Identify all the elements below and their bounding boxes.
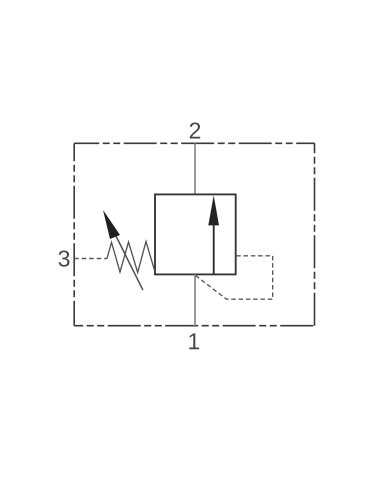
adjustment arrow shaft	[115, 233, 143, 290]
port 1 label	[189, 333, 199, 349]
port 2 label	[190, 122, 200, 138]
wire port 1	[194, 274, 196, 325]
flow arrow shaft	[213, 222, 215, 274]
pilot line port 3 (dashed)	[74, 258, 107, 260]
adjustment arrow head	[103, 210, 120, 239]
enclosure border right	[314, 143, 316, 325]
enclosure border left	[73, 143, 75, 325]
wire port 2	[194, 143, 196, 194]
port 3 label	[59, 250, 70, 266]
spring S1	[107, 242, 155, 273]
pilot control line loop (dashed)	[196, 256, 273, 299]
enclosure border bottom	[74, 325, 314, 327]
flow arrow head	[208, 195, 219, 225]
valve body V1	[155, 194, 236, 274]
enclosure border top (dashed component boundary)	[74, 142, 314, 144]
